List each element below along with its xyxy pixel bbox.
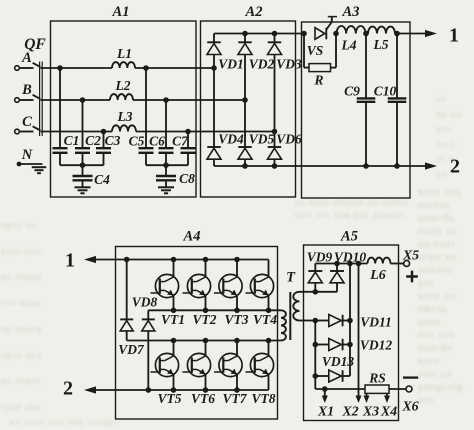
transistor VT6 [183,341,211,391]
svg-text:C9: C9 [344,84,360,99]
inductor L2 [110,94,133,100]
transformer T core [289,292,291,340]
wire N [19,163,43,165]
svg-text:VT8: VT8 [251,391,275,406]
breaker QF pole A blade [33,63,41,67]
arrow output 2 [425,162,437,169]
svg-text:2: 2 [63,378,73,400]
svg-text:X6: X6 [401,400,418,415]
arrow input 1 [84,256,96,263]
junction VD12 anode [313,342,319,348]
svg-text:L1: L1 [116,46,132,61]
capacitor C1 [59,68,61,148]
svg-text:X4: X4 [380,405,397,420]
svg-text:VT1: VT1 [161,312,185,327]
wire positive bus A2 [214,33,304,35]
diode VD4 [213,68,215,147]
junction VD3 cathode [272,31,278,37]
junction VD10 cathode [334,261,340,267]
inductor L6 [368,258,391,264]
svg-text:C: C [22,114,32,130]
svg-text:VD7: VD7 [118,342,145,357]
block A5 output rectifier box [304,245,399,421]
transistor VT1 [151,260,179,311]
junction C-C3 [101,129,107,135]
svg-text:VD6: VD6 [276,132,302,147]
junction VT6 emitter [203,387,209,393]
wire phase C to L3 [41,131,113,133]
svg-text:B: B [21,82,32,98]
svg-text:L4: L4 [341,38,357,53]
breaker QF pole B blade [33,95,41,99]
arrow X4 [386,393,388,396]
svg-text:VD3: VD3 [276,57,302,72]
wire emitter bus upper [148,309,281,311]
junction VT2 emitter [203,308,209,314]
diode VD10 [336,264,338,272]
diode VD1 [213,34,215,43]
svg-text:T: T [286,270,296,286]
transformer T primary [281,310,286,340]
wire negative bus [214,165,425,167]
svg-text:C6: C6 [149,134,165,149]
wire C1-C2-C3 common bus [60,164,104,166]
capacitor C10 [396,34,398,99]
diode VD8 [147,310,149,319]
wire bus 1 top A4 [96,259,269,261]
junction secondary top node [313,289,319,295]
diode VD13 [315,375,329,377]
svg-text:C5: C5 [129,134,145,149]
junction phase B bridge [242,97,248,103]
svg-text:X5: X5 [402,249,419,264]
junction VD13 anode [313,373,319,379]
svg-text:A5: A5 [340,229,358,245]
wire phase B to VD2 [133,99,245,101]
capacitor C5 [145,68,147,148]
capacitor C3 [103,132,105,149]
junction C-C7 [185,129,191,135]
arrow output 1 [425,30,437,37]
breaker QF linkage [39,62,41,137]
junction freewheel cathode bus top [347,261,353,267]
capacitor C6 [165,100,167,148]
inductor L1 [112,62,135,68]
wire C stub [20,131,34,133]
capacitor C7 [187,132,189,149]
svg-text:VD4: VD4 [218,132,244,147]
svg-text:C10: C10 [374,84,397,99]
junction VD11 cathode [347,318,353,324]
diode VD6 [274,132,276,148]
terminal B [15,98,20,103]
wire minus riser [314,321,316,390]
transformer T secondary [293,292,299,321]
wire phase B to L2 [41,99,111,101]
ground C4 [75,186,91,188]
svg-text:VT4: VT4 [253,312,277,327]
svg-text:L2: L2 [115,78,131,93]
junction VT7 collector [234,338,240,344]
wire to X5 [391,263,404,265]
ground C8 [158,186,174,188]
junction VT4 emitter [266,308,272,314]
junction C4 tap [80,162,86,168]
svg-text:C8: C8 [179,171,195,186]
inductor L5 [368,27,395,34]
svg-text:X3: X3 [362,405,379,420]
junction C9 top [363,31,369,37]
junction VT5 collector [171,338,177,344]
junction VD8 bottom [146,387,152,393]
wire RS to X6 [389,388,406,390]
svg-text:A4: A4 [183,229,201,245]
junction secondary bottom node [313,318,319,324]
junction X2 tap [356,261,362,267]
wire A stub [20,67,34,69]
arrow X2 [356,396,362,404]
svg-text:A1: A1 [112,4,130,20]
label minus [403,376,418,378]
wire collector bus lower [127,340,281,342]
wire phase C to VD3 [136,131,275,133]
junction A-C1 [57,65,63,71]
transistor VT4 [246,260,274,311]
junction VT5 emitter [171,387,177,393]
svg-text:A: A [21,50,32,66]
wire phase A to L1 [41,67,113,69]
wire minus rail [315,388,365,390]
junction VT3 emitter [234,308,240,314]
transistor VT5 [151,341,179,391]
block A3 output-filter box [302,22,411,198]
svg-text:VT2: VT2 [192,312,216,327]
svg-text:VD9: VD9 [307,250,333,265]
transistor VT7 [214,341,242,391]
junction VT7 emitter [234,387,240,393]
diode VD7 [126,260,128,320]
junction VD6 anode [272,163,278,169]
junction VT6 collector [203,338,209,344]
svg-text:VT5: VT5 [157,391,181,406]
svg-text:VT6: VT6 [191,391,215,406]
capacitor C9 [365,34,367,99]
wire secondary bottom [300,320,316,322]
diode VD2 [244,34,246,43]
svg-text:VD11: VD11 [360,315,392,330]
shunt RS [365,385,389,393]
ground N [32,166,47,168]
svg-text:VD1: VD1 [218,57,244,72]
junction VT8 collector [266,338,272,344]
wire C5-C6-C7 common bus [146,164,188,166]
svg-text:VD8: VD8 [132,295,158,310]
transistor VT8 [246,341,274,391]
svg-text:C7: C7 [172,134,189,149]
diode VD3 [274,34,276,43]
block A2 rectifier box [201,21,296,197]
capacitor C2 [82,100,84,148]
arrow input 2 [84,386,96,393]
junction VT3 collector [234,257,240,263]
junction VT1 collector [171,257,177,263]
svg-text:VS: VS [307,43,324,58]
svg-text:C1: C1 [64,133,80,148]
svg-text:VD5: VD5 [249,132,275,147]
wire freewheel cathode bus [349,264,351,377]
transistor VT2 [183,260,211,311]
junction C10 top [394,31,400,37]
inductor L3 [112,125,136,131]
junction C9 bottom [363,163,369,169]
junction B-C2 [80,97,86,103]
svg-text:C2: C2 [85,133,101,148]
wire secondary top [300,291,316,293]
breaker QF pole C blade [33,126,41,130]
arrow X3 [366,393,368,396]
terminal A [15,66,20,71]
diode VD5 [244,100,246,147]
svg-text:RS: RS [368,371,386,386]
junction phase A bridge [211,65,217,71]
junction VT2 collector [203,257,209,263]
svg-text:C3: C3 [105,133,121,148]
svg-text:C4: C4 [94,172,110,187]
svg-text:X1: X1 [317,405,334,420]
junction VD5 anode [242,163,248,169]
svg-text:VD2: VD2 [249,57,275,72]
wire plus bus A5 [315,263,367,265]
block A1 input-filter box [51,21,197,197]
node VS cathode [333,31,339,37]
svg-text:N: N [21,147,33,163]
capacitor C4 [82,165,84,176]
node VS anode [301,31,307,37]
svg-text:L3: L3 [117,109,133,124]
svg-text:VD12: VD12 [360,338,393,353]
svg-text:1: 1 [449,25,459,47]
diode VD9 [314,264,316,272]
svg-text:1: 1 [65,250,75,272]
junction VD12 cathode [347,342,353,348]
terminal X6 [406,386,412,392]
junction phase C bridge [272,129,278,135]
junction VD7 top [124,257,130,263]
terminal C [15,129,20,134]
svg-text:X2: X2 [341,405,358,420]
wire B stub [20,99,34,101]
junction A-C5 [143,65,149,71]
block A4 inverter box [116,247,278,420]
inductor L4 [337,26,366,33]
transistor VT3 [214,260,242,311]
svg-text:A2: A2 [245,4,263,20]
junction C10 bottom [394,163,400,169]
svg-text:VD13: VD13 [322,354,355,369]
diode VD11 [315,320,329,322]
svg-text:L5: L5 [373,37,389,52]
thyristor VS [315,28,325,40]
terminal N [17,162,22,167]
svg-text:L6: L6 [369,268,386,283]
diode VD12 [315,344,329,346]
resistor R [303,34,305,68]
wire bus 2 bottom A4 [96,389,269,391]
capacitor C8 [165,165,167,176]
label plus [406,275,418,278]
junction B-C6 [163,97,169,103]
wire X2 sense [358,264,360,396]
svg-text:VT3: VT3 [224,312,248,327]
svg-text:2: 2 [450,156,460,178]
arrow X1 [324,389,326,396]
junction VD2 cathode [242,31,248,37]
wire phase A to VD1 [135,67,214,69]
junction C8 tap [163,162,169,168]
wire to output 1 [397,33,426,35]
terminal X5 [404,261,410,267]
junction X1 tap [322,386,328,392]
svg-text:VT7: VT7 [222,391,247,406]
svg-text:A3: A3 [342,4,360,20]
junction VT1 emitter [171,308,177,314]
svg-text:R: R [313,73,323,88]
